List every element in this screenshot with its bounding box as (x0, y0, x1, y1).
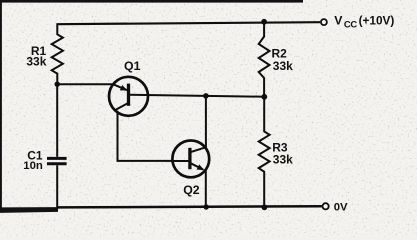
transistor Q2 (NPN, base left) (172, 141, 209, 178)
wire node A to Q1 emitter (57, 83, 114, 85)
svg-text:33k: 33k (26, 55, 46, 69)
top edge rule (0, 0, 303, 3)
resistor R2 (259, 22, 270, 97)
terminal 0V (323, 203, 329, 209)
node D (R2 top on Vcc rail) (261, 19, 267, 25)
svg-text:V: V (334, 13, 343, 27)
label R1 33k (26, 44, 46, 69)
bottom-left edge bar (0, 207, 58, 213)
wire node B to Q2 collector (205, 96, 207, 148)
svg-text:Q1: Q1 (124, 59, 141, 73)
capacitor C1 (47, 158, 67, 163)
wire top rail (Vcc) (57, 22, 320, 24)
label Vcc (+10V) (334, 13, 394, 29)
svg-text:Q2: Q2 (183, 183, 200, 197)
wire C1 top lead (56, 84, 58, 157)
label R2 33k (272, 47, 294, 73)
svg-text:(+10V): (+10V) (359, 13, 395, 27)
resistor R3 (259, 97, 270, 208)
wire Q1 collector to Q2 base (118, 111, 173, 161)
wire bottom rail (0V) (57, 206, 322, 207)
svg-text:CC: CC (344, 19, 357, 30)
node A (R1 / C1 / Q1 emitter junction) (55, 82, 60, 87)
svg-text:0V: 0V (334, 201, 348, 213)
label C1 10n (23, 148, 43, 172)
resistor R1 (52, 23, 63, 84)
left edge rule (0, 0, 2, 208)
node E (R2 / R3 junction) (261, 94, 267, 100)
node C (Q2 emitter on 0V rail) (204, 204, 209, 209)
wire Q1 base to node E (129, 95, 265, 97)
svg-text:33k: 33k (273, 59, 293, 73)
svg-text:33k: 33k (273, 153, 293, 167)
transistor Q1 (PNP, base right) (109, 77, 148, 116)
node F (R3 bottom on 0V rail) (262, 204, 268, 210)
wire C1 bottom lead (56, 165, 58, 207)
label R3 33k (272, 140, 293, 166)
node B (Q1 base / Q2 collector junction) (203, 93, 209, 99)
svg-text:10n: 10n (23, 160, 43, 172)
wire Q2 emitter to bottom rail (205, 170, 207, 207)
terminal Vcc (321, 19, 327, 25)
